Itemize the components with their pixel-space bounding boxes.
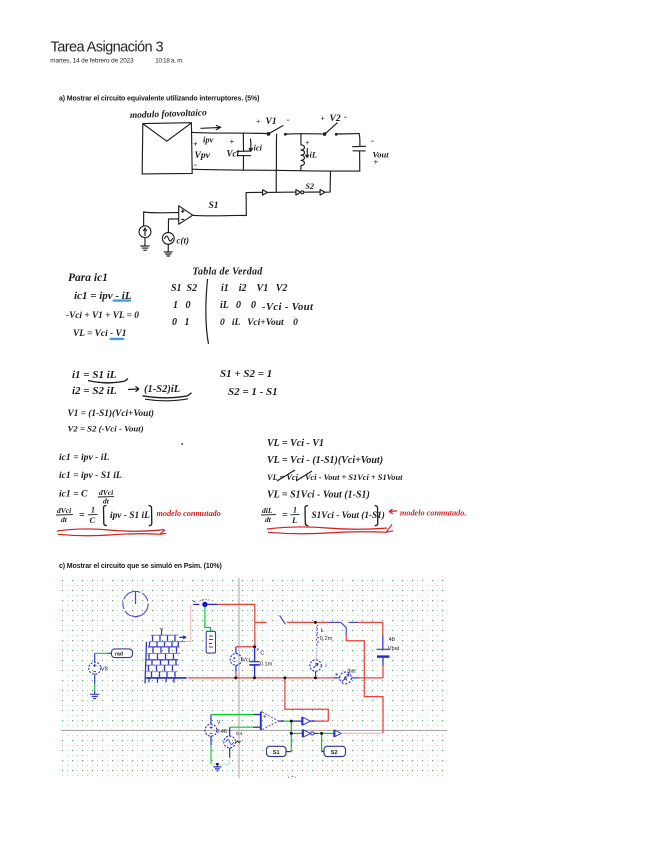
svg-text:diL: diL — [262, 506, 273, 515]
svg-text:V2: V2 — [330, 114, 341, 124]
svg-text:1: 1 — [91, 506, 95, 515]
svg-text:i1 = S1 iL: i1 = S1 iL — [72, 369, 117, 381]
svg-text:1 0: 1 0 — [173, 300, 191, 311]
svg-text:iL: iL — [310, 150, 318, 160]
svg-text:I: I — [325, 664, 326, 670]
svg-text:ic1 = ipv - iL: ic1 = ipv - iL — [59, 452, 109, 463]
svg-text:dt: dt — [265, 515, 272, 524]
svg-text:V8: V8 — [101, 667, 108, 673]
svg-text:ipv: ipv — [203, 135, 214, 145]
svg-text:S1 + S2 = 1: S1 + S2 = 1 — [220, 368, 272, 380]
svg-text:ic1 = C: ic1 = C — [59, 489, 88, 500]
svg-text:S2 = 1 - S1: S2 = 1 - S1 — [228, 386, 278, 398]
svg-text:c) Mostrar el circuito que se: c) Mostrar el circuito que se simuló en … — [59, 563, 222, 570]
svg-text:48: 48 — [389, 637, 395, 643]
svg-text:Vbat: Vbat — [388, 646, 400, 652]
svg-text:=: = — [79, 510, 85, 521]
svg-text:VL = Vci - (1-S1)(Vci+Vout): VL = Vci - (1-S1)(Vci+Vout) — [267, 455, 383, 466]
svg-text:C: C — [90, 515, 96, 525]
svg-text:+: + — [256, 117, 260, 126]
svg-text:martes, 14 de febrero de 2023: martes, 14 de febrero de 2023 — [50, 58, 134, 65]
svg-text:dt: dt — [61, 515, 68, 524]
svg-text:ic1 = ipv - S1 iL: ic1 = ipv - S1 iL — [59, 470, 122, 481]
svg-text:V1: V1 — [266, 117, 277, 127]
svg-text:0.4: 0.4 — [236, 731, 243, 736]
svg-text:-: - — [371, 136, 374, 146]
svg-text:VL = Vci - V1: VL = Vci - V1 — [267, 438, 324, 449]
svg-text:Tarea Asignación 3: Tarea Asignación 3 — [51, 39, 164, 55]
svg-text:-Vci + V1 + VL = 0: -Vci + V1 + VL = 0 — [66, 311, 139, 321]
svg-text:iL 0 0: iL 0 0 — [220, 300, 256, 311]
svg-text:+: + — [305, 138, 309, 147]
svg-text:Tabla de Verdad: Tabla de Verdad — [193, 267, 264, 278]
svg-text:(1-S2)iL: (1-S2)iL — [144, 384, 180, 395]
svg-text:c(t): c(t) — [177, 236, 190, 246]
svg-text:i1 i2 V1 V2: i1 i2 V1 V2 — [221, 283, 287, 294]
svg-text:L: L — [291, 515, 297, 525]
svg-text:dVci: dVci — [57, 506, 72, 515]
svg-text:-Vci - Vout: -Vci - Vout — [262, 301, 314, 313]
svg-text:ici: ici — [254, 143, 263, 153]
svg-text:0 1: 0 1 — [172, 317, 190, 328]
svg-text:VL = S1Vci - Vout (1-S1): VL = S1Vci - Vout (1-S1) — [267, 490, 370, 501]
svg-text:-: - — [344, 112, 347, 122]
svg-text:dt: dt — [103, 497, 110, 506]
svg-text:S1: S1 — [273, 750, 280, 756]
svg-text:S1 S2: S1 S2 — [171, 283, 197, 294]
svg-text:Vci: Vci — [227, 149, 240, 159]
svg-text:Para ic1: Para ic1 — [68, 272, 108, 284]
svg-text:+: + — [230, 138, 235, 147]
svg-text:+: + — [193, 140, 198, 149]
svg-text:-: - — [287, 115, 290, 125]
svg-text:V1 = (1-S1)(Vci+Vout): V1 = (1-S1)(Vci+Vout) — [68, 408, 155, 419]
svg-text:0.1m: 0.1m — [260, 662, 273, 668]
svg-text:-: - — [194, 160, 197, 170]
svg-text:a) Mostrar el circuito equival: a) Mostrar el circuito equivalente utili… — [59, 95, 259, 102]
svg-text:1: 1 — [293, 506, 297, 515]
svg-text:S1Vci - Vout (1-S1): S1Vci - Vout (1-S1) — [312, 510, 385, 520]
svg-text:S2: S2 — [331, 750, 338, 756]
svg-text:L: L — [321, 628, 324, 634]
svg-text:VL = Vci - V1: VL = Vci - V1 — [73, 329, 126, 339]
svg-text:i2 = S2 iL: i2 = S2 iL — [72, 385, 117, 397]
svg-text:modelo conmutado.: modelo conmutado. — [400, 509, 466, 518]
svg-text:=: = — [282, 510, 288, 521]
svg-text:10:18 a. m.: 10:18 a. m. — [155, 58, 184, 65]
svg-text:rad: rad — [115, 651, 123, 657]
svg-text:S1: S1 — [209, 201, 219, 211]
svg-text:+: + — [374, 158, 379, 167]
svg-text:C: C — [260, 651, 264, 657]
svg-text:Vci: Vci — [242, 658, 250, 664]
svg-text:Ibat: Ibat — [347, 668, 356, 674]
svg-text:V2 = S2 (-Vci - Vout): V2 = S2 (-Vci - Vout) — [68, 424, 144, 434]
svg-text:+: + — [321, 114, 325, 123]
svg-text:modelo conmutado: modelo conmutado — [157, 509, 221, 518]
svg-text:0.2m: 0.2m — [320, 636, 333, 642]
svg-text:0.46: 0.46 — [216, 729, 227, 735]
svg-text:ipv - S1 iL: ipv - S1 iL — [110, 511, 150, 521]
svg-text:S2: S2 — [306, 182, 314, 191]
svg-text:0 iL Vci+Vout 0: 0 iL Vci+Vout 0 — [220, 318, 298, 328]
